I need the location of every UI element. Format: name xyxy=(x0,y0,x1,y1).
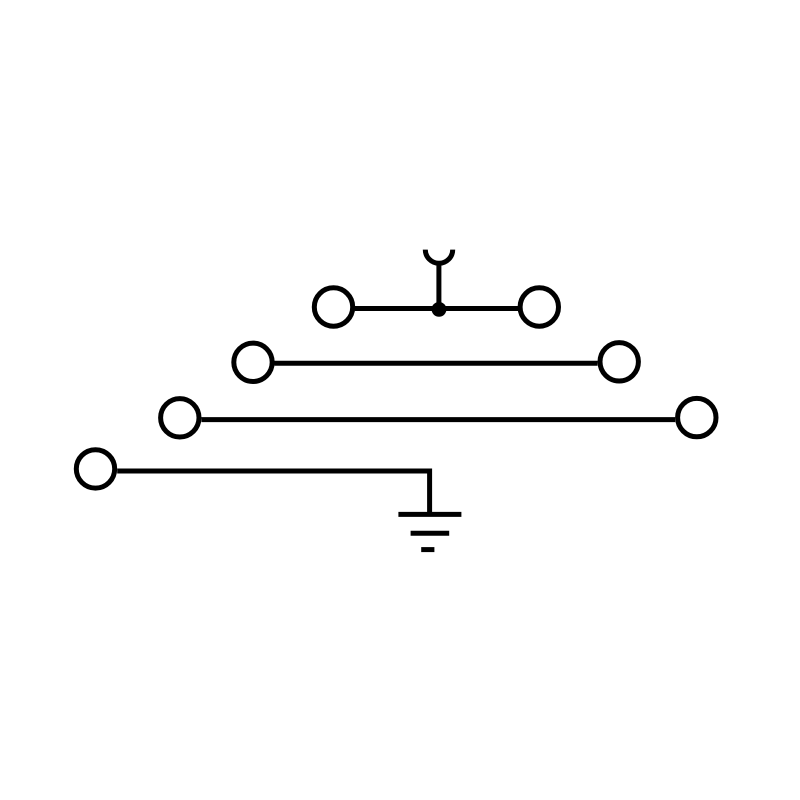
terminal 2.1 (level 2, left clamp) xyxy=(234,343,272,381)
terminal 4.1 (level 4 PE, left clamp) xyxy=(76,450,114,488)
terminal 3.2 (level 3, right clamp) xyxy=(678,398,716,436)
node: junction on level 1 wire xyxy=(432,302,447,317)
terminal 3.1 (level 3, left clamp) xyxy=(161,399,199,437)
wire: level 1 conductor xyxy=(355,306,519,311)
wire: level 2 conductor xyxy=(275,361,598,366)
wire: stem from junction to socket contact xyxy=(436,263,441,309)
ground (PE earth symbol) xyxy=(398,514,461,549)
terminal 1.1 (level 1, left clamp) xyxy=(314,288,352,326)
plug-in socket contact (cross-connection receptacle) xyxy=(425,250,452,264)
terminal 2.2 (level 2, right clamp) xyxy=(600,343,638,381)
wire: level 3 conductor xyxy=(202,417,676,422)
wire: level 4 conductor to earth xyxy=(117,471,429,514)
terminal 1.2 (level 1, right clamp) xyxy=(520,288,558,326)
